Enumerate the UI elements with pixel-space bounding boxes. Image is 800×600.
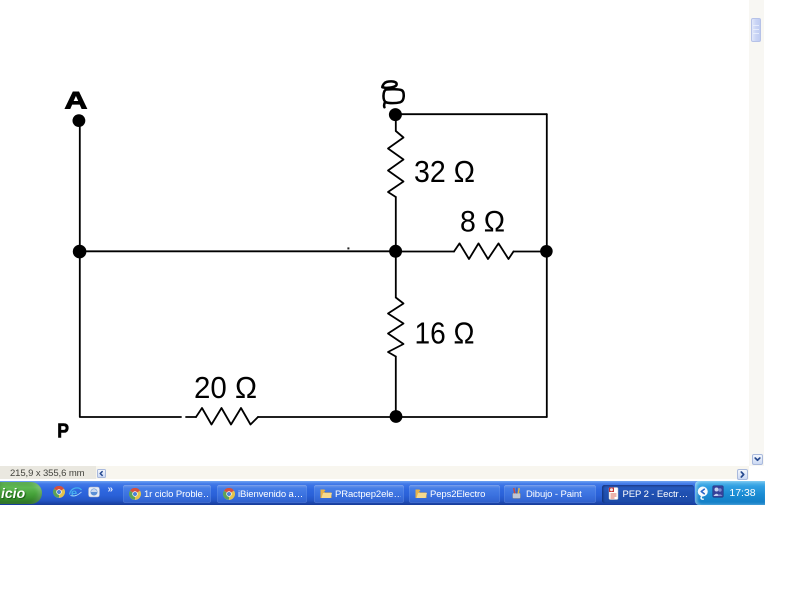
wire middle right (node3 to R2) (399, 251, 454, 253)
value label 8 ohm (460, 205, 505, 238)
wire from R3 to bottom junction (395, 357, 397, 415)
start button (Inicio, cropped) (0, 482, 42, 505)
value label 16 ohm (415, 317, 475, 351)
vertical scrollbar thumb (751, 18, 761, 42)
node label B (hand-drawn scribble) (382, 81, 403, 107)
wire left rail A to P (79, 126, 81, 417)
svg-text:P: P (57, 420, 69, 442)
task button 1: 1r ciclo Proble... (123, 485, 211, 503)
wire bottom left segment (81, 416, 182, 418)
resistor R3 16 ohm zigzag (388, 298, 404, 357)
wire from R2 to right node (514, 251, 544, 253)
svg-text:20 Ω: 20 Ω (194, 371, 257, 405)
wire right rail (546, 114, 548, 417)
quick launch third icon (88, 486, 100, 498)
junction middle (node 3) (389, 245, 402, 258)
svg-text:16 Ω: 16 Ω (415, 317, 475, 351)
wire from middle node down to R3 16 ohm (395, 256, 397, 298)
horizontal scrollbar right button (737, 469, 748, 480)
value label 20 ohm (194, 371, 257, 405)
task button 5: Dibujo - Paint (504, 485, 596, 503)
svg-text:A: A (65, 87, 88, 113)
wire top (node B to top-right corner) (398, 113, 547, 115)
system tray (695, 481, 765, 505)
vertical scrollbar down button (752, 454, 763, 465)
node B terminal dot (389, 108, 402, 121)
task button 4: Peps2Electro (409, 485, 500, 503)
wire middle horizontal left (node1 to node3) (80, 250, 392, 252)
quick launch IE icon (69, 486, 82, 499)
task button 3: PRactpep2ele... (314, 485, 404, 503)
horizontal scrollbar left button (97, 469, 106, 478)
resistor R4 20 ohm zigzag (196, 408, 258, 425)
taskbar (0, 481, 765, 505)
task button 2: iBienvenido a... (217, 485, 307, 503)
junction left (node on left rail) (73, 245, 87, 259)
junction bottom (node 5) (390, 410, 403, 423)
junction right (node 4) (540, 245, 553, 258)
svg-text:8 Ω: 8 Ω (460, 205, 505, 238)
status / horizontal scrollbar strip (0, 466, 96, 479)
wire bottom right segment (through bottom junction to right rail) (258, 416, 547, 418)
task button 6 (active): PEP 2 - Eectr... (602, 485, 694, 503)
vertical scrollbar track (749, 0, 764, 466)
stray ink speck on middle wire (347, 247, 349, 249)
quick launch overflow chevron (108, 484, 120, 495)
wire from R1 to middle node (395, 197, 397, 247)
tray clock (726, 487, 759, 499)
node label A (65, 87, 88, 113)
resistor R2 8 ohm zigzag (454, 243, 514, 259)
tray messenger icon (712, 485, 724, 498)
node label P (57, 420, 69, 442)
node A terminal dot (73, 114, 86, 127)
resistor R1 32 ohm zigzag (388, 131, 404, 197)
wire bottom small segment before 20 ohm (186, 416, 196, 418)
tray hide-icons button (697, 486, 709, 500)
resistor R1 32 ohm stub from node B (395, 120, 397, 131)
status bar size text (10, 468, 160, 479)
value label 32 ohm (414, 154, 475, 189)
quick launch chrome icon (53, 486, 65, 498)
svg-text:32 Ω: 32 Ω (414, 154, 475, 189)
